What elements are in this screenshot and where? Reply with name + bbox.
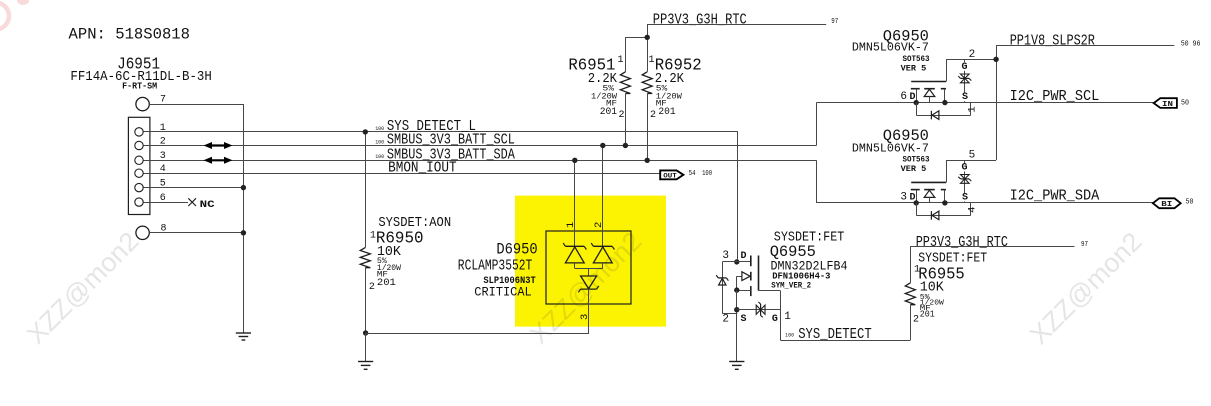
svg-text:4: 4 (967, 207, 979, 213)
svg-text:SYSDET:FET: SYSDET:FET (918, 251, 987, 266)
svg-text:S: S (962, 192, 968, 203)
svg-text:97: 97 (1081, 241, 1088, 249)
svg-text:97: 97 (831, 18, 838, 26)
svg-text:PP3V3_G3H_RTC: PP3V3_G3H_RTC (916, 234, 1008, 251)
svg-text:100: 100 (375, 153, 384, 160)
svg-text:CRITICAL: CRITICAL (474, 285, 531, 300)
svg-text:2: 2 (722, 314, 729, 326)
svg-text:96: 96 (1193, 41, 1201, 49)
svg-text:3: 3 (579, 314, 591, 320)
svg-text:I2C_PWR_SDA: I2C_PWR_SDA (1010, 187, 1100, 204)
svg-text:3: 3 (900, 191, 907, 203)
svg-text:D: D (910, 92, 916, 103)
svg-text:DMN5L06VK-7: DMN5L06VK-7 (852, 141, 929, 155)
svg-text:D: D (741, 251, 747, 262)
svg-text:3: 3 (722, 250, 729, 262)
svg-text:G: G (962, 163, 968, 174)
svg-text:6: 6 (900, 91, 907, 103)
svg-text:I2C_PWR_SCL: I2C_PWR_SCL (1010, 88, 1100, 105)
svg-text:2: 2 (369, 282, 375, 293)
svg-text:RCLAMP3552T: RCLAMP3552T (458, 259, 533, 275)
svg-text:DMN5L06VK-7: DMN5L06VK-7 (852, 41, 929, 55)
svg-text:1: 1 (784, 311, 791, 323)
svg-text:5: 5 (969, 150, 976, 162)
svg-text:PP3V3_G3H_RTC: PP3V3_G3H_RTC (653, 12, 747, 29)
svg-text:D: D (910, 192, 916, 203)
svg-text:BMON_IOUT: BMON_IOUT (388, 160, 457, 177)
svg-text:2: 2 (593, 222, 605, 228)
svg-text:SOT563: SOT563 (903, 55, 930, 64)
svg-text:2: 2 (619, 110, 625, 121)
svg-text:F-RT-SM: F-RT-SM (122, 81, 157, 92)
svg-text:201: 201 (600, 107, 617, 118)
svg-text:SYS_DETECT: SYS_DETECT (798, 326, 872, 343)
svg-text:VER 5: VER 5 (901, 64, 927, 73)
svg-text:50: 50 (1181, 99, 1189, 107)
svg-text:201: 201 (920, 309, 935, 319)
svg-text:201: 201 (658, 107, 675, 118)
svg-text:G: G (772, 314, 778, 325)
svg-text:APN: 518S0818: APN: 518S0818 (69, 26, 191, 44)
svg-text:NC: NC (200, 199, 216, 211)
svg-text:2: 2 (969, 49, 976, 61)
svg-text:S: S (962, 92, 968, 103)
svg-text:PP1V8_SLPS2R: PP1V8_SLPS2R (1010, 33, 1095, 50)
svg-text:1: 1 (565, 222, 577, 228)
svg-text:54: 54 (689, 170, 696, 178)
svg-text:50: 50 (1186, 199, 1194, 207)
svg-text:IN: IN (1162, 101, 1173, 109)
svg-text:SYM_VER_2: SYM_VER_2 (771, 280, 811, 290)
svg-text:50: 50 (1181, 41, 1189, 49)
svg-text:1: 1 (160, 123, 166, 134)
svg-text:100: 100 (375, 125, 384, 132)
svg-text:100: 100 (785, 331, 794, 338)
svg-text:SOT563: SOT563 (903, 156, 930, 165)
svg-text:100: 100 (702, 170, 712, 178)
svg-text:7: 7 (160, 95, 166, 106)
svg-text:VER 5: VER 5 (901, 165, 927, 174)
svg-text:10K: 10K (920, 279, 945, 295)
svg-text:D6950: D6950 (496, 241, 537, 259)
svg-text:100: 100 (375, 138, 384, 145)
svg-text:1: 1 (618, 55, 624, 66)
svg-text:G: G (962, 62, 968, 73)
svg-text:2: 2 (650, 110, 656, 121)
svg-text:BI: BI (1161, 201, 1172, 209)
svg-text:S: S (741, 314, 747, 325)
svg-text:2: 2 (913, 315, 919, 326)
svg-text:1: 1 (649, 55, 655, 66)
svg-text:OUT: OUT (663, 172, 677, 179)
svg-text:1: 1 (967, 106, 979, 112)
svg-text:201: 201 (377, 278, 396, 289)
